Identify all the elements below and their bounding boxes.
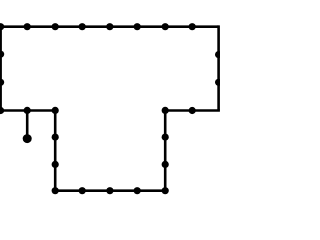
- node top-left corner: [0, 23, 4, 30]
- node stem bottom 1: [134, 187, 141, 194]
- node top edge 3: [79, 23, 86, 30]
- node top edge 6: [162, 23, 169, 30]
- wire stub: [26, 111, 29, 139]
- node left edge 1: [0, 79, 4, 86]
- node stub junction: [24, 107, 31, 114]
- node bottom-left corner: [0, 107, 4, 114]
- node stem bottom 3: [79, 187, 86, 194]
- node top edge 7: [189, 23, 196, 30]
- node stem right 2: [162, 161, 169, 168]
- wire top edge: [1, 25, 219, 28]
- wire stem left: [54, 111, 57, 191]
- node stub endpoint: [23, 134, 32, 143]
- node stem bottom-right corner: [162, 187, 169, 194]
- node top edge 1: [24, 23, 31, 30]
- node stem left top corner: [52, 107, 59, 114]
- node right edge 1: [215, 51, 222, 58]
- wire stem bottom: [55, 189, 165, 192]
- node top edge 2: [52, 23, 59, 30]
- node stem bottom-left corner: [52, 187, 59, 194]
- wire stem right: [164, 111, 167, 191]
- wire crossbar bottom left: [1, 109, 56, 112]
- wire crossbar bottom right: [165, 109, 220, 112]
- node stem right 1: [162, 134, 169, 141]
- node crossbar bottom right: [189, 107, 196, 114]
- node left edge 2: [0, 51, 4, 58]
- wire right edge: [217, 25, 220, 110]
- node right edge 2: [215, 79, 222, 86]
- node top edge 4: [106, 23, 113, 30]
- node stem left 1: [52, 161, 59, 168]
- node top edge 5: [134, 23, 141, 30]
- node stem bottom 2: [106, 187, 113, 194]
- wire left edge: [0, 27, 2, 111]
- node stem right top corner: [162, 107, 169, 114]
- node stem left 2: [52, 134, 59, 141]
